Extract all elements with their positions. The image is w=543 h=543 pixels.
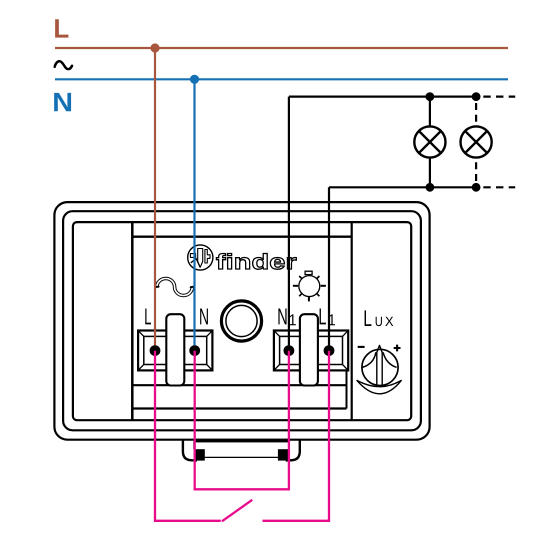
L line xyxy=(55,47,508,49)
device inner case xyxy=(63,211,421,430)
lux dial knob xyxy=(362,349,398,385)
terminal label L1 sub1 xyxy=(329,314,335,325)
mounting clip right foot xyxy=(278,449,288,460)
node lamp1 bottom xyxy=(426,183,435,192)
terminal label L1 L xyxy=(320,308,326,324)
node lamp1 top xyxy=(426,92,435,101)
lux panel divider xyxy=(351,223,353,421)
node lamp2 top xyxy=(472,92,481,101)
terminal block L-N outer xyxy=(138,331,212,371)
separator bar N1-L1 xyxy=(300,314,318,385)
terminal label L xyxy=(145,308,151,324)
mounting clip left foot xyxy=(195,449,205,460)
load sine symbol xyxy=(157,279,192,296)
terminal label N1 sub1 xyxy=(290,314,296,325)
mounting clip plate xyxy=(194,439,289,443)
node lamp2 bottom xyxy=(472,183,481,192)
node on L line xyxy=(150,43,159,52)
wire N terminal to N1 terminal xyxy=(195,351,289,490)
wire lamp1 leads xyxy=(429,97,431,127)
wire L1 return down xyxy=(328,187,330,350)
lux dial plus xyxy=(394,345,401,352)
terminal screw N xyxy=(189,345,200,356)
terminal block N1-L1 inner xyxy=(280,336,343,364)
terminal label N xyxy=(200,308,208,324)
lux dial minus xyxy=(358,346,365,348)
Lux label X xyxy=(385,317,393,326)
terminal label N1 N xyxy=(278,308,286,324)
finder logo emblem xyxy=(188,245,213,270)
module face right edge xyxy=(346,371,348,409)
wire lamp bottom rail xyxy=(329,186,478,188)
terminal screw L1 xyxy=(324,345,335,356)
photocell window xyxy=(221,301,261,341)
device recess outline xyxy=(73,222,411,420)
AC symbol xyxy=(55,61,72,69)
wire N neutral down xyxy=(193,79,195,350)
finder logo text xyxy=(216,253,296,269)
mounting clip inner edges xyxy=(193,441,195,449)
module face lower edge 1 xyxy=(132,384,346,386)
wire lamp top rail xyxy=(289,95,478,97)
N line xyxy=(55,78,508,80)
separator bar L-N xyxy=(166,314,184,385)
node on N line xyxy=(190,75,199,84)
terminal block L-N bevels xyxy=(139,331,213,370)
lamp E2 xyxy=(461,126,492,157)
lux dial lens arcs xyxy=(362,352,396,367)
terminal block N1-L1 outer xyxy=(274,331,348,371)
mounting clip right hook xyxy=(286,440,300,460)
device outer case xyxy=(54,202,429,440)
wire lamp top rail dashed extension xyxy=(483,95,515,97)
lux dial crescent xyxy=(357,380,402,394)
wire switch to L1 terminal xyxy=(263,351,330,521)
lamp E1 xyxy=(414,126,445,157)
module face left edge xyxy=(131,223,134,420)
N label xyxy=(54,93,71,111)
Lux label L xyxy=(365,310,372,326)
Lux label U xyxy=(376,317,382,326)
wire lamp bottom rail dashed extension xyxy=(483,186,515,188)
wire L terminal to switch xyxy=(155,351,221,521)
light sensor sun symbol xyxy=(293,271,326,301)
wire N1 feed down xyxy=(288,97,290,351)
terminal screw N1 xyxy=(284,345,295,356)
wire L phase down xyxy=(154,48,156,351)
mounting clip left hook xyxy=(183,440,197,460)
terminal block N1-L1 bevels xyxy=(274,331,348,370)
L label xyxy=(55,19,68,37)
lux dial slot pointer xyxy=(377,345,382,385)
module face top edge xyxy=(132,236,351,238)
switch contact blade xyxy=(222,500,252,522)
terminal screw L xyxy=(150,345,161,356)
terminal block L-N inner xyxy=(144,336,207,364)
wire lamp2 leads dashed xyxy=(475,103,477,127)
module face lower edge 2 xyxy=(132,407,346,409)
